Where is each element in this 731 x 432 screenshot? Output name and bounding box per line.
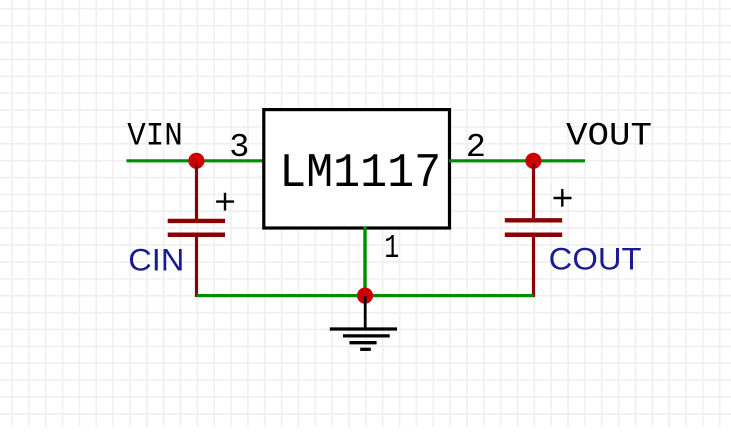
net label VIN <box>127 117 183 154</box>
svg-text:LM1117: LM1117 <box>279 146 441 201</box>
junction node VIN <box>188 153 204 169</box>
label CIN <box>128 241 184 277</box>
pin 1 <box>384 230 399 268</box>
wire pin1 vertical <box>363 227 366 296</box>
pin 3 <box>229 129 249 167</box>
wire ground rail <box>197 294 534 297</box>
label COUT <box>549 241 642 277</box>
svg-text:VIN: VIN <box>127 117 183 154</box>
svg-text:VOUT: VOUT <box>566 117 652 154</box>
svg-text:COUT: COUT <box>549 241 642 277</box>
svg-text:CIN: CIN <box>128 241 184 277</box>
svg-text:1: 1 <box>384 230 399 268</box>
regulator U1 box <box>264 110 450 228</box>
capacitor CIN <box>168 163 234 297</box>
wire VOUT (right horizontal) <box>449 159 585 162</box>
junction node GND <box>357 288 373 304</box>
net label VOUT <box>566 117 652 154</box>
ground <box>330 296 397 349</box>
label LM1117 <box>279 146 441 201</box>
junction node VOUT <box>525 153 541 169</box>
pin 2 <box>466 129 486 167</box>
capacitor COUT <box>505 163 572 297</box>
svg-text:2: 2 <box>466 129 486 167</box>
wire VIN (left horizontal) <box>127 159 265 162</box>
svg-text:3: 3 <box>229 129 249 167</box>
